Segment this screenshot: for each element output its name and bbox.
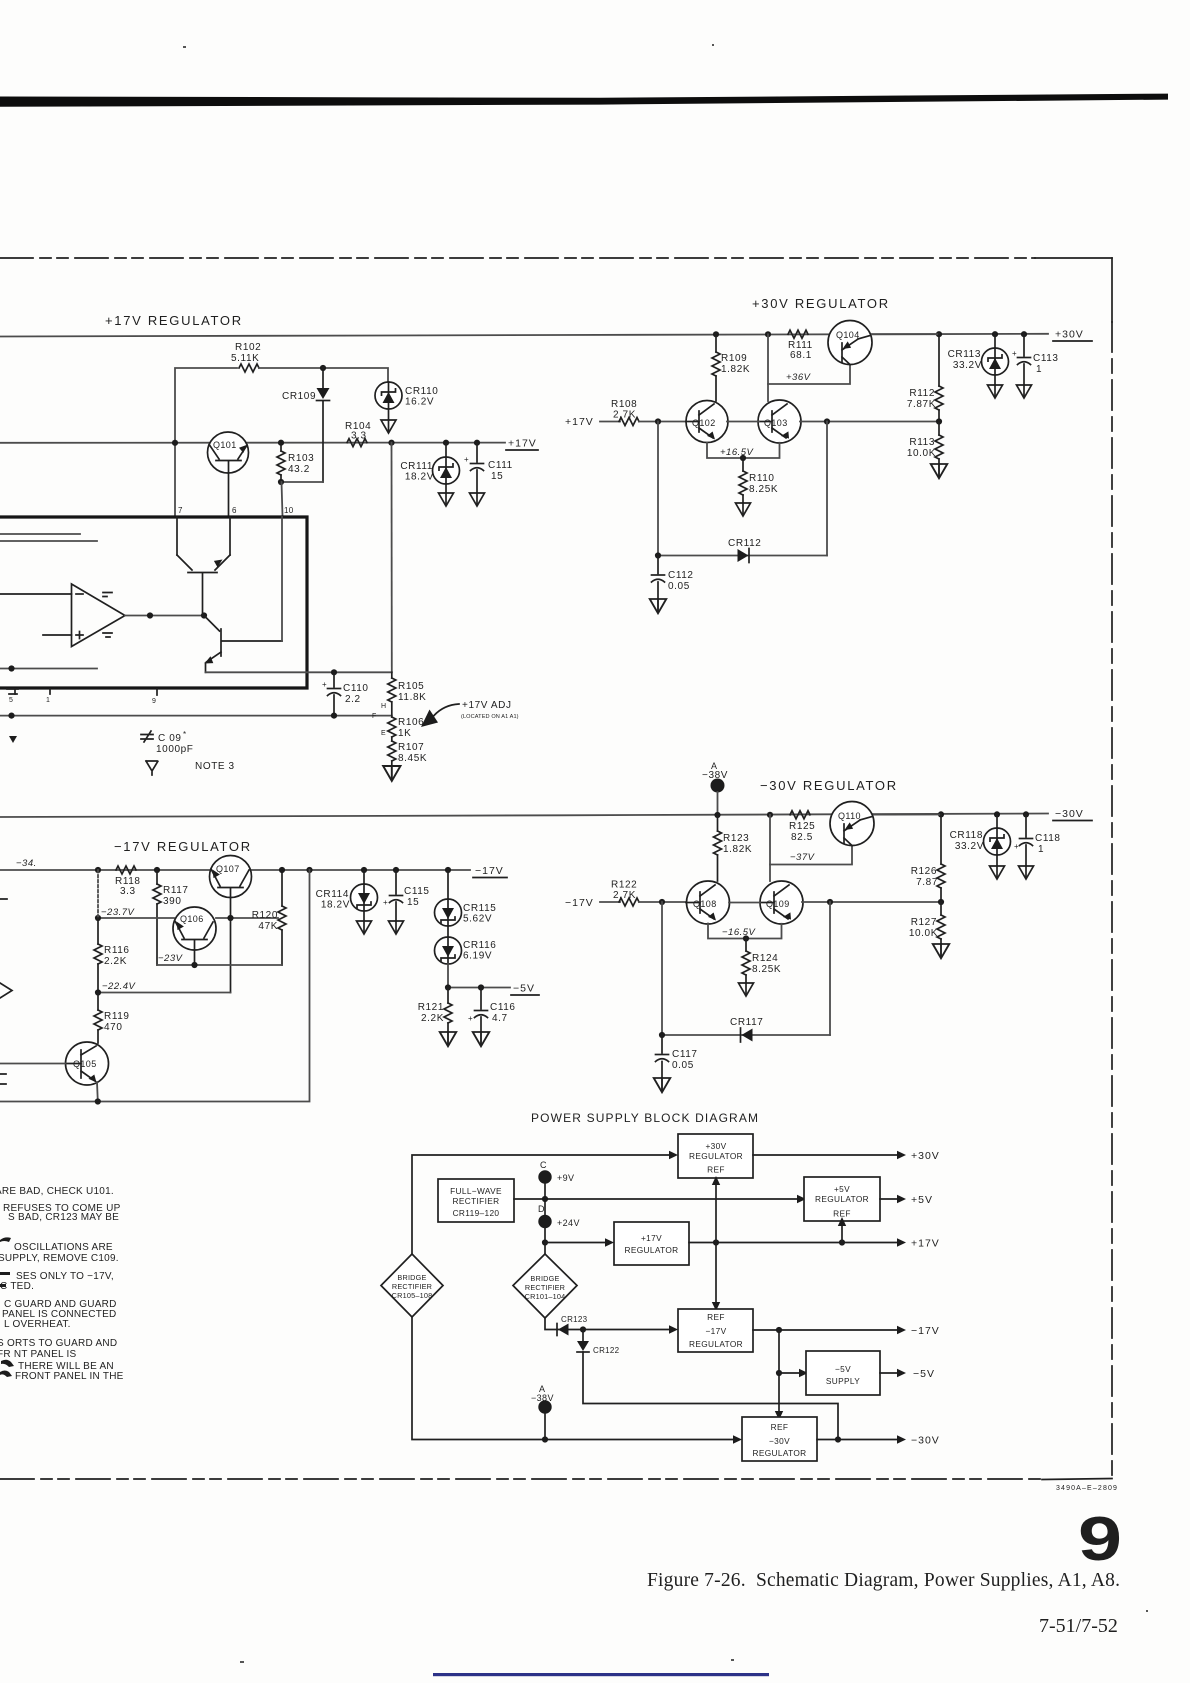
wire -5V (448, 987, 510, 989)
junction rail R126 (938, 811, 944, 817)
wire Q104 emitter to +36V node (767, 334, 769, 401)
wire +30V output (753, 1154, 898, 1156)
junction rail Q109 drop (767, 812, 773, 818)
svg-text:REGULATOR: REGULATOR (815, 1194, 869, 1204)
arrow +5V output (897, 1194, 933, 1206)
arrow -5V output (897, 1368, 935, 1380)
wire emitter bracket Q102/Q103 (707, 443, 780, 459)
node label -30V (1053, 808, 1092, 821)
zener CR114 (316, 870, 378, 911)
svg-text:11.8K: 11.8K (398, 692, 426, 703)
svg-text:+5V: +5V (834, 1184, 850, 1194)
diode CR122 (577, 1330, 620, 1356)
node label -17V (473, 865, 507, 878)
svg-text:R124: R124 (752, 953, 778, 964)
svg-text:C115: C115 (404, 886, 430, 897)
svg-text:1.82K: 1.82K (721, 364, 750, 375)
svg-text:+17V: +17V (911, 1238, 940, 1250)
frame top right solid segment (1035, 257, 1112, 259)
svg-text:FULL−WAVE: FULL−WAVE (450, 1186, 502, 1196)
junction CR122 path (835, 1436, 841, 1442)
transistor Q106 (173, 907, 216, 965)
junction CR112 drop right (824, 418, 830, 424)
svg-text:(LOCATED ON A1 A1): (LOCATED ON A1 A1) (461, 714, 519, 720)
resistor R116 (94, 918, 130, 993)
junction CR117 drop left (659, 899, 665, 905)
svg-text:−5V: −5V (513, 983, 535, 995)
svg-text:0.05: 0.05 (672, 1060, 694, 1071)
junction C110 top (331, 669, 337, 675)
svg-text:2.2: 2.2 (345, 694, 361, 705)
svg-text:R108: R108 (611, 399, 637, 410)
svg-text:REGULATOR: REGULATOR (752, 1448, 806, 1458)
svg-text:F: F (372, 713, 376, 720)
zener CR118 (950, 814, 1011, 855)
svg-text:2.7K: 2.7K (613, 410, 636, 421)
svg-text:390: 390 (163, 896, 182, 907)
svg-text:15: 15 (407, 897, 419, 908)
junction rail CR118 (994, 811, 1000, 817)
svg-text:R119: R119 (104, 1011, 130, 1022)
arrow -17V output (897, 1325, 940, 1337)
junction rail C111 (474, 440, 480, 446)
wire +5V REF riser (838, 1217, 846, 1243)
svg-text:E: E (381, 730, 386, 737)
svg-text:+30V: +30V (1055, 329, 1084, 341)
wire inside box upper left (0, 533, 80, 535)
svg-text:S ORTS TO GUARD AND: S ORTS TO GUARD AND (0, 1338, 117, 1349)
svg-text:7.87: 7.87 (916, 877, 938, 888)
op-amp box U101 (0, 517, 307, 688)
svg-text:NOTE 3: NOTE 3 (195, 761, 235, 772)
svg-text:FR NT PANEL IS: FR NT PANEL IS (0, 1349, 77, 1360)
capacitor C111 (464, 443, 513, 493)
diode CR123 (557, 1315, 588, 1336)
left edge marks near F wire (7, 689, 18, 743)
junction bracket (740, 455, 746, 461)
svg-text:BRIDGE: BRIDGE (530, 1274, 559, 1283)
junction rail C113 (1021, 331, 1027, 337)
resistor R123 (714, 815, 753, 881)
svg-text:68.1: 68.1 (790, 350, 812, 361)
zener CR111 (400, 443, 459, 484)
junction -5V branch (776, 1370, 782, 1376)
junction driver base node (201, 612, 207, 618)
svg-text:+: + (383, 898, 388, 907)
svg-text:R116: R116 (104, 945, 130, 956)
junction Q107 emitter cross (227, 915, 233, 921)
svg-text:−23.7V: −23.7V (101, 907, 136, 918)
transistor upper (inside U101) (177, 517, 230, 616)
svg-text:2.7K: 2.7K (613, 890, 636, 901)
resistor R102 (231, 342, 261, 372)
svg-text:+17V: +17V (508, 438, 537, 450)
wire CR109 to R103 (281, 481, 323, 483)
svg-text:1000pF: 1000pF (156, 744, 194, 755)
svg-text:R112: R112 (909, 388, 935, 399)
wire Q110 emitter to -37V node (769, 815, 771, 881)
ground below CR118 (990, 855, 1005, 879)
svg-text:R109: R109 (721, 353, 747, 364)
ground below C111 (470, 493, 485, 506)
svg-text:C116: C116 (490, 1002, 516, 1013)
arrow -30V output (897, 1435, 940, 1447)
arrow +30V output (897, 1150, 940, 1162)
svg-text:+: + (468, 1014, 473, 1023)
wire op-amp output (125, 615, 204, 617)
resistor R108 (611, 399, 639, 426)
wire lower-left inside box (0, 665, 97, 671)
capacitor C116 (468, 988, 516, 1033)
wire emitter out to R105 (206, 671, 392, 673)
svg-text:10: 10 (284, 506, 294, 515)
svg-text:RECTIFIER: RECTIFIER (525, 1283, 565, 1292)
svg-text:+36V: +36V (786, 372, 812, 383)
zener CR110 (375, 382, 438, 409)
resistor R125 (789, 811, 815, 843)
wire REF line +30V to -17V (712, 1176, 720, 1311)
wire -5V output (880, 1372, 898, 1374)
svg-text:470: 470 (104, 1022, 123, 1033)
svg-text:Q101: Q101 (213, 440, 237, 450)
wire +17V feed (545, 1242, 606, 1244)
junction rail CR111 (443, 440, 449, 446)
node label +17V (506, 438, 538, 451)
resistor R126 (911, 814, 945, 902)
svg-text:0.05: 0.05 (668, 581, 690, 592)
wire drop right to CR117 (829, 902, 831, 1035)
svg-text:C117: C117 (672, 1049, 698, 1060)
capacitor C118 (1014, 814, 1061, 866)
wire -23V (157, 953, 282, 965)
diode CR109 (282, 368, 330, 482)
junction REF cross +17V (713, 1239, 719, 1245)
wire -30V output (817, 1439, 898, 1441)
transistor Q101 (208, 432, 249, 517)
wire Q103 to R112 node (800, 421, 939, 423)
junction rail at CR110 ground / R105 drop (388, 440, 394, 446)
svg-text:C112: C112 (668, 570, 694, 581)
junction bracket -30V (743, 935, 749, 941)
resistor R119 (94, 993, 130, 1044)
node C (538, 1160, 574, 1184)
junction rail CR115 (445, 867, 451, 873)
resistor R124 (742, 939, 781, 984)
svg-text:43.2: 43.2 (288, 464, 310, 475)
ground below R121 (440, 1032, 457, 1046)
junction C column (542, 1196, 548, 1202)
wire rail resume after Q110 (874, 814, 941, 816)
transistor Q110 (830, 802, 874, 846)
svg-text:RECTIFIER: RECTIFIER (453, 1196, 500, 1206)
svg-text:+9V: +9V (557, 1173, 574, 1183)
wire -37V horizontal (770, 846, 852, 865)
capacitor C113 (1012, 334, 1059, 385)
wire -5V riser (778, 1330, 780, 1412)
wire bottom return (0, 870, 310, 1102)
transistor Q107 (210, 856, 252, 993)
ground below CR114 (357, 911, 372, 934)
junction A column (542, 1436, 548, 1442)
svg-text:BRIDGE: BRIDGE (397, 1273, 426, 1282)
svg-text:+30V REGULATOR: +30V REGULATOR (752, 296, 890, 311)
svg-text:R110: R110 (749, 473, 775, 484)
svg-text:47K: 47K (258, 921, 278, 932)
svg-text:+16.5V: +16.5V (720, 447, 755, 458)
transistor lower (inside U101) (204, 616, 282, 673)
svg-text:7-51/7-52: 7-51/7-52 (1039, 1615, 1118, 1637)
junction -23V Q106 (191, 962, 197, 968)
junction R126/R127 (938, 899, 944, 905)
svg-text:−17V: −17V (565, 897, 594, 909)
junction rail R123 (714, 812, 720, 818)
arrow into +5V box (797, 1195, 806, 1203)
svg-text:+24V: +24V (557, 1218, 580, 1228)
svg-text:CR122: CR122 (593, 1346, 620, 1355)
svg-text:8.45K: 8.45K (398, 753, 427, 764)
junction rail R112 (936, 331, 942, 337)
junction -23.7V left (95, 915, 101, 921)
transistor Q108 (686, 881, 730, 924)
wire Q107 base column to R120 (216, 917, 278, 919)
wire C to D (544, 1184, 546, 1216)
svg-text:3.3: 3.3 (120, 886, 136, 897)
svg-text:+17V: +17V (565, 416, 594, 428)
wire -17V input (600, 901, 620, 903)
junction -22.4V (95, 989, 101, 995)
wire left column upper faint (97, 870, 99, 918)
svg-text:4.7: 4.7 (492, 1013, 508, 1024)
resistor R110 (739, 458, 778, 503)
wire CR116 to -5V node (447, 964, 449, 988)
junction rail R120 (279, 867, 285, 873)
frame bottom dashed border (0, 1478, 1042, 1480)
svg-text:OSCILLATIONS ARE: OSCILLATIONS ARE (14, 1242, 113, 1253)
svg-text:D: D (538, 1204, 545, 1214)
junction rail CR114 (361, 867, 367, 873)
svg-text:CR113: CR113 (948, 349, 981, 360)
svg-text:+5V: +5V (911, 1194, 933, 1206)
ground below C118 (1019, 866, 1034, 879)
ground below C113 (1017, 385, 1032, 398)
svg-text:2.2K: 2.2K (104, 956, 127, 967)
resistor R103 (277, 443, 314, 482)
wire main +17V rail (0, 442, 505, 444)
svg-text:−30V: −30V (1055, 808, 1084, 820)
svg-text:CR117: CR117 (730, 1017, 763, 1028)
wire Q105 emitter to bottom rail (96, 1082, 99, 1102)
wire D to diamond (544, 1228, 546, 1254)
wire CR117 (662, 1034, 830, 1036)
bottom blue line (433, 1673, 769, 1676)
svg-text:CR116: CR116 (463, 940, 496, 951)
svg-text:+17V ADJ: +17V ADJ (462, 700, 512, 711)
resistor R127 (909, 902, 945, 944)
arrow +17V output (897, 1238, 940, 1250)
junction CR117 left (659, 1032, 665, 1038)
junction +5V ref riser (839, 1239, 845, 1245)
junction R102 line on rail (172, 440, 178, 446)
svg-text:R127: R127 (911, 917, 937, 928)
svg-text:POWER SUPPLY BLOCK DIAGRAM: POWER SUPPLY BLOCK DIAGRAM (531, 1111, 759, 1125)
junction CR112 left (655, 552, 661, 558)
wire drop right to CR112 (826, 422, 828, 556)
ground note symbol (146, 761, 158, 775)
ground below C115 (389, 921, 404, 934)
svg-text:R120: R120 (252, 910, 278, 921)
junction rail left column (95, 867, 101, 873)
wire diamond to -17V ref box (545, 1318, 670, 1330)
resistor R109 (712, 334, 750, 401)
resistor R104 (345, 421, 371, 447)
svg-text:FRONT PANEL IN THE: FRONT PANEL IN THE (15, 1371, 124, 1382)
junction rail Q103 drop (765, 331, 771, 337)
svg-text:1: 1 (1038, 844, 1044, 855)
svg-text:R123: R123 (723, 833, 749, 844)
svg-text:C110: C110 (343, 683, 369, 694)
zener CR113 (948, 334, 1009, 375)
svg-text:CR109: CR109 (282, 391, 316, 402)
svg-text:R107: R107 (398, 742, 424, 753)
node A -38V (702, 761, 728, 815)
svg-text:R122: R122 (611, 880, 637, 891)
wire R102 branch top (175, 368, 237, 517)
transistor Q109 (760, 881, 803, 924)
ground below R127 (933, 944, 950, 958)
svg-text:1: 1 (1036, 364, 1042, 375)
junction +17V feed (542, 1239, 548, 1245)
resistor R106 (388, 702, 425, 739)
wire -22.4V (98, 981, 231, 993)
wire drop to CR117 (661, 902, 663, 1035)
junction rail C115 (393, 867, 399, 873)
svg-text:R105: R105 (398, 681, 424, 692)
transistor Q104 (828, 321, 872, 365)
resistor R120 (252, 870, 286, 965)
svg-text:1K: 1K (398, 728, 411, 739)
svg-text:CR105–108: CR105–108 (392, 1291, 433, 1300)
wire drop to CR112 (657, 422, 659, 556)
svg-text:−37V: −37V (790, 852, 816, 863)
svg-text:R103: R103 (288, 453, 314, 464)
junction CR109 top (320, 365, 326, 371)
svg-text:REGULATOR: REGULATOR (624, 1245, 678, 1255)
wire -30V feed rail across page (0, 814, 1048, 818)
ground below R110 (736, 503, 751, 516)
svg-text:9: 9 (152, 698, 156, 705)
resistor R122 (611, 880, 639, 907)
junction CR117 drop right (827, 899, 833, 905)
svg-text:REF: REF (771, 1422, 789, 1432)
svg-text:−17V: −17V (705, 1326, 726, 1336)
ground below C112 (650, 599, 667, 613)
svg-text:−22.4V: −22.4V (102, 981, 137, 992)
junction rail C118 (1023, 811, 1029, 817)
svg-text:−30V REGULATOR: −30V REGULATOR (760, 778, 898, 793)
svg-text:Q107: Q107 (216, 864, 240, 874)
svg-text:+: + (1012, 349, 1017, 358)
svg-text:8.25K: 8.25K (752, 964, 781, 975)
frame top dashed border (0, 257, 1035, 259)
diode CR112 (728, 538, 761, 563)
wire CR112 (658, 555, 827, 557)
wire R103 to pin 10 (282, 482, 283, 516)
junction R112/R113 (936, 418, 942, 424)
svg-text:+: + (464, 455, 469, 464)
ground below R113 (931, 464, 948, 478)
wire +5V feed (514, 1198, 798, 1200)
svg-text:18.2V: 18.2V (321, 900, 350, 911)
ground below R124 (739, 983, 754, 996)
arrow into ref -30V box (733, 1435, 742, 1443)
junction rail right column (306, 867, 312, 873)
wire -5V feed (779, 1369, 808, 1377)
svg-text:82.5: 82.5 (791, 832, 813, 843)
resistor R113 (907, 422, 943, 465)
svg-text:7: 7 (178, 506, 183, 515)
ground below C116 (473, 1032, 490, 1046)
svg-text:R125: R125 (789, 821, 815, 832)
svg-text:9: 9 (1078, 1505, 1122, 1574)
box full-wave rectifier (438, 1179, 514, 1222)
arrow into +17V box (605, 1238, 614, 1246)
junction R103 rail (278, 440, 284, 446)
svg-text:CR114: CR114 (316, 889, 349, 900)
resistor R107 (388, 737, 427, 766)
svg-text:Q108: Q108 (693, 899, 717, 909)
svg-text:Q102: Q102 (692, 418, 716, 428)
capacitor C112 (652, 556, 694, 600)
svg-text:CR112: CR112 (728, 538, 761, 549)
svg-text:CR118: CR118 (950, 830, 983, 841)
svg-text:−34.: −34. (16, 858, 37, 869)
wire left rail to +30V regulator (412, 1155, 670, 1254)
top scan bar (0, 94, 1168, 107)
svg-text:R126: R126 (911, 866, 937, 877)
svg-text:2.2K: 2.2K (421, 1013, 444, 1024)
transistor Q105 (66, 1042, 109, 1085)
svg-text:ARE BAD, CHECK U101.: ARE BAD, CHECK U101. (0, 1186, 114, 1197)
svg-text:−5V: −5V (913, 1368, 935, 1380)
svg-text:+30V: +30V (911, 1150, 940, 1162)
ground below CR111 (439, 484, 454, 506)
svg-text:33.2V: 33.2V (953, 360, 982, 371)
ground below CR110 (381, 409, 396, 433)
svg-text:7.87K: 7.87K (907, 399, 936, 410)
junction rail CR113 (992, 331, 998, 337)
svg-text:−17V: −17V (911, 1325, 940, 1337)
wire +5V output (880, 1198, 898, 1200)
resistor R117 (153, 870, 189, 965)
box ref -30V regulator (742, 1417, 817, 1461)
svg-text:33.2V: 33.2V (955, 841, 984, 852)
zener CR116 (435, 926, 497, 964)
resistor R118 (115, 866, 141, 897)
resistor R111 (788, 330, 813, 361)
wire between Q102 Q103 (727, 421, 759, 423)
svg-text:+30V: +30V (705, 1141, 726, 1151)
box +5V regulator (804, 1177, 880, 1221)
transistor Q103 (758, 400, 801, 443)
left edge marks (0, 899, 7, 1084)
wire R102 to CR110 (259, 368, 388, 382)
wire F line (0, 713, 392, 721)
junction R103 bottom (278, 479, 284, 485)
ground below R107 (383, 766, 400, 781)
svg-text:−30V: −30V (911, 1435, 940, 1447)
svg-text:+: + (1014, 842, 1019, 851)
svg-text:8.25K: 8.25K (749, 484, 778, 495)
